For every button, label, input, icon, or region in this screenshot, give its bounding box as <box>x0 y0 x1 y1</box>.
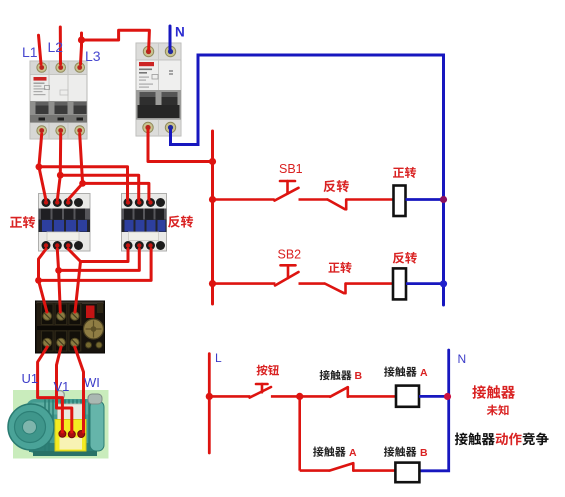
wire rung1 blue to N bus <box>406 198 444 201</box>
label 接触器 A coil <box>384 366 417 376</box>
wire N bus (blue) upper ladder <box>171 55 444 305</box>
wire FR to motor V1 <box>57 347 72 432</box>
junction dot feed <box>209 158 216 165</box>
thermal relay aux screws <box>86 342 92 348</box>
svg-text:B: B <box>420 447 428 459</box>
wire rung1 mid <box>299 198 328 201</box>
label 按钮 <box>257 365 279 376</box>
svg-text:L1: L1 <box>22 44 38 60</box>
motor foot <box>33 451 97 456</box>
junction dot rung2-N <box>440 280 447 287</box>
junction dot rung2-L <box>209 280 216 287</box>
wire KM1-b1 to FR/KM2 <box>39 249 47 312</box>
wire QF1-2 to contactors <box>57 134 60 200</box>
label 动作 red <box>496 433 522 446</box>
breaker QF2 (2-pole DZ47-63 C32) <box>136 43 181 136</box>
svg-text:L: L <box>215 351 222 365</box>
coil 接触器B <box>395 463 419 483</box>
contactor KM2 (reverse) <box>122 194 167 252</box>
svg-text:WI: WI <box>84 375 100 390</box>
coil 接触器A <box>396 386 419 407</box>
motor terminal box <box>58 404 84 421</box>
junction dot rung1-L <box>209 196 216 203</box>
label 正转 contact rung2 <box>329 262 352 273</box>
junction dot branch <box>296 393 303 400</box>
svg-text:N: N <box>175 25 185 40</box>
motor terminals <box>59 430 66 437</box>
wire L2 drop <box>59 27 62 64</box>
coil KM2 反转 <box>393 268 406 299</box>
breaker QF1 bottom terminals <box>37 126 85 136</box>
wire FR to motor W1 <box>75 347 84 432</box>
motor body <box>26 399 98 453</box>
thermal relay reset button <box>86 306 95 319</box>
wire rungA left <box>209 395 250 398</box>
wire bus L (lower) <box>208 354 211 453</box>
wire rungA mid <box>271 395 330 398</box>
wire rung1 to coil <box>346 198 393 201</box>
thermal relay bottom screws <box>43 338 79 347</box>
wire KM1-b3 to FR/KM2 <box>68 249 80 312</box>
wire L3 to QF2 top <box>82 30 150 49</box>
label 反转 KM2 <box>168 215 193 227</box>
wire KM1-b2 to FR/KM2 <box>57 249 60 312</box>
pushbutton 按钮 <box>250 384 271 398</box>
thermal relay top screws <box>43 312 79 321</box>
label 接触器 A contact rungB <box>313 446 346 456</box>
svg-text:SB2: SB2 <box>278 248 302 262</box>
svg-text:V1: V1 <box>54 379 70 394</box>
junction dot L3 tap <box>78 36 85 43</box>
svg-text:L2: L2 <box>48 39 64 55</box>
contactor KM1 bottom terminals <box>42 241 84 250</box>
wire rung2 to coil <box>346 282 394 285</box>
breaker QF2 bottom terminals <box>143 122 176 132</box>
label 接触器 B coil rungB <box>384 446 417 456</box>
label 竞争 black part2 <box>522 432 548 445</box>
pushbutton SB2 <box>275 265 299 285</box>
wire QF1-3 to contactors <box>68 134 82 200</box>
junction dot KM1-b2 <box>55 267 62 274</box>
NC contact 接触器A <box>330 463 354 470</box>
wire N blue drop <box>169 26 172 49</box>
coil KM1 正转 <box>394 186 406 217</box>
wire rungB to coil <box>353 469 395 472</box>
motor lifting eye <box>56 391 65 400</box>
svg-text:SB1: SB1 <box>279 162 303 176</box>
NC contact 接触器B <box>330 387 348 397</box>
contactor KM1 top terminals <box>42 198 84 207</box>
wire rung2 blue to N bus <box>406 282 444 285</box>
svg-text:L3: L3 <box>85 48 101 64</box>
label 反转 contact rung1 <box>323 180 348 192</box>
breaker QF2 top terminals <box>143 46 175 56</box>
label 接触器 B contact <box>320 370 352 380</box>
wire QF2 phase feed to control L <box>148 130 213 162</box>
label 未知 note <box>487 405 509 416</box>
wire FR to motor U1 <box>38 347 63 432</box>
contactor KM2 bottom terminals <box>124 241 166 250</box>
svg-text:A: A <box>420 367 428 379</box>
svg-text:N: N <box>458 352 467 366</box>
wire branch drop <box>298 396 301 470</box>
breaker QF1 (3-pole DZ47-63) <box>30 61 87 139</box>
svg-text:A: A <box>349 447 357 459</box>
wire bus N (lower blue) <box>419 350 448 471</box>
label 正转 KM1 <box>10 216 35 228</box>
thermal relay dial <box>84 319 104 339</box>
motor M panel <box>8 390 109 459</box>
label 反转 coil rung2 <box>393 252 417 264</box>
junction dot QF1-2 <box>57 172 64 179</box>
junction dot QF1-1 <box>36 163 43 170</box>
wire control bus L (red vertical) <box>211 131 214 304</box>
contactor KM1 (forward) <box>39 194 91 252</box>
NC contact KM2 (反转) <box>328 200 347 210</box>
wire rung2 left <box>213 282 276 285</box>
motor front end cap <box>8 404 54 450</box>
wire L3 drop <box>81 33 82 64</box>
label 接触器 note <box>472 385 515 399</box>
wire rungA to coil <box>348 395 396 398</box>
wire rung2 mid <box>299 282 326 285</box>
junction dot rung1-N <box>440 196 447 203</box>
wire QF1-1 to contactors <box>39 134 46 200</box>
NC contact KM1 (正转) <box>325 284 346 294</box>
wire rung1 left <box>213 198 275 201</box>
wire L1 drop <box>39 35 42 64</box>
wire rungB left <box>300 469 330 472</box>
pushbutton SB1 <box>275 181 299 201</box>
contactor KM2 top terminals <box>124 198 166 207</box>
thermal relay FR <box>36 301 105 353</box>
junction dot rungA-L <box>206 393 213 400</box>
breaker QF1 top terminals <box>37 63 85 73</box>
label 正转 coil rung1 <box>393 167 416 178</box>
label 接触器动作竞争 black part1 <box>455 433 495 446</box>
junction dot QF1-3 <box>79 180 86 187</box>
svg-text:U1: U1 <box>22 371 39 386</box>
wire rungA blue to N <box>419 395 449 398</box>
motor shaft <box>13 422 35 430</box>
junction dot rungA-N <box>444 393 451 400</box>
motor right cap <box>90 401 104 451</box>
svg-text:B: B <box>355 370 363 382</box>
junction dot KM1-b1 <box>35 277 42 284</box>
